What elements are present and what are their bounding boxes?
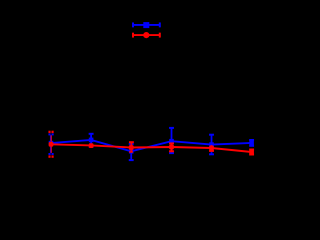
errbar S2 P4 xyxy=(171,143,173,151)
errbar S1 P2 xyxy=(90,134,92,147)
errbar S1 P1 xyxy=(50,135,52,153)
errorbar line chart on black background xyxy=(0,0,286,210)
red series S2 error bars xyxy=(48,132,254,157)
red series S2 markers xyxy=(49,142,254,154)
errbar S1 P5 xyxy=(211,135,213,155)
blue series S1 line xyxy=(51,140,252,151)
errbar S1 P3 xyxy=(130,144,132,160)
legend sample S2 (red, xerr bar with circle marker) xyxy=(133,32,160,38)
legend sample S1 (blue, xerr bar with square marker) xyxy=(133,22,160,28)
errbar S2 P1 xyxy=(50,135,52,153)
errbar S2 P3 xyxy=(130,142,132,152)
errbar S1 P6 xyxy=(251,140,253,146)
errbar S1 P4 xyxy=(171,128,173,153)
blue series S1 square markers xyxy=(49,138,254,154)
errbar S2 P6 xyxy=(251,150,253,155)
errbar S2 P5 xyxy=(211,145,213,151)
blue series S1 error bars xyxy=(48,128,254,160)
red series S2 line xyxy=(51,144,252,152)
